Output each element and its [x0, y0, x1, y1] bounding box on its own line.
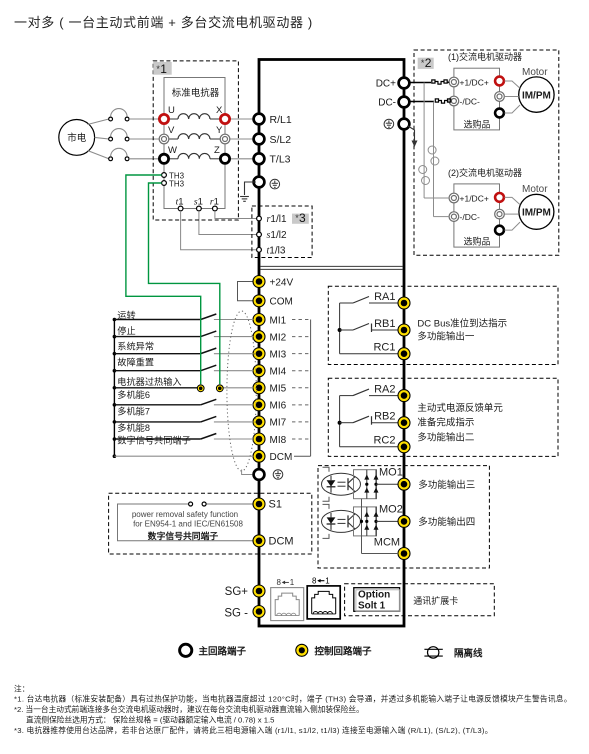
svg-text:r1: r1: [210, 197, 219, 208]
svg-text:数字信号共同端子: 数字信号共同端子: [147, 530, 219, 541]
svg-text:RA1: RA1: [374, 291, 395, 303]
svg-text:2: 2: [425, 56, 432, 70]
svg-text:RB2: RB2: [374, 411, 395, 423]
svg-text:s1: s1: [194, 197, 203, 208]
svg-text:MO1: MO1: [379, 467, 403, 479]
svg-text:MI7: MI7: [270, 418, 287, 429]
svg-text:通讯扩展卡: 通讯扩展卡: [413, 595, 458, 606]
svg-text:W: W: [168, 145, 177, 156]
svg-text:RB1: RB1: [374, 318, 395, 330]
svg-text:MI6: MI6: [270, 401, 287, 412]
svg-text:多功能输出一: 多功能输出一: [417, 330, 475, 342]
svg-text:*3. 电抗器推荐使用台达品牌，若非台达原厂配件，请将此三相: *3. 电抗器推荐使用台达品牌，若非台达原厂配件，请将此三相电源输入端 (r1/…: [14, 725, 493, 735]
svg-text:一对多 ( 一台主动式前端 + 多台交流电机驱动器 ): 一对多 ( 一台主动式前端 + 多台交流电机驱动器 ): [14, 15, 313, 30]
svg-text:(2)交流电机驱动器: (2)交流电机驱动器: [448, 167, 522, 178]
svg-text:市电: 市电: [67, 132, 87, 144]
svg-text:注：: 注：: [14, 684, 29, 694]
svg-text:1: 1: [160, 62, 167, 76]
svg-text:3: 3: [299, 211, 306, 225]
svg-text:多功能输出四: 多功能输出四: [418, 516, 475, 528]
svg-text:(1)交流电机驱动器: (1)交流电机驱动器: [448, 51, 522, 62]
svg-text:MI5: MI5: [270, 384, 287, 395]
svg-text:隔离线: 隔离线: [454, 648, 483, 660]
svg-text:多机能8: 多机能8: [117, 422, 150, 433]
svg-text:停止: 停止: [117, 325, 135, 336]
svg-text:多机能6: 多机能6: [117, 389, 150, 400]
svg-text:系统异常: 系统异常: [117, 341, 154, 352]
svg-text:主回路端子: 主回路端子: [199, 646, 247, 658]
svg-text:Z: Z: [214, 145, 220, 156]
svg-text:MI2: MI2: [270, 332, 287, 343]
svg-text:主动式电源反馈单元: 主动式电源反馈单元: [417, 402, 503, 414]
svg-text:S1: S1: [269, 499, 282, 511]
svg-text:RC1: RC1: [373, 342, 395, 354]
svg-text:COM: COM: [270, 297, 293, 308]
svg-text:1: 1: [325, 576, 330, 585]
svg-text:V: V: [168, 125, 175, 136]
svg-text:t1/l3: t1/l3: [267, 245, 286, 256]
svg-text:电抗器过热输入: 电抗器过热输入: [117, 376, 181, 387]
svg-text:TH3: TH3: [169, 180, 185, 189]
svg-text:t1: t1: [176, 197, 184, 208]
svg-text:U: U: [168, 105, 175, 116]
svg-text:标准电抗器: 标准电抗器: [172, 87, 220, 99]
svg-text:+1/DC+: +1/DC+: [460, 77, 489, 87]
svg-text:-/DC-: -/DC-: [460, 212, 480, 222]
svg-text:MI8: MI8: [270, 435, 287, 446]
svg-text:*2. 当一台主动式前端连接多台交流电机驱动器时，建议在每台: *2. 当一台主动式前端连接多台交流电机驱动器时，建议在每台交流电机驱动器直流输…: [14, 704, 364, 714]
svg-text:S/L2: S/L2: [270, 134, 292, 146]
svg-text:多机能7: 多机能7: [117, 406, 150, 417]
svg-text:MI4: MI4: [270, 367, 287, 378]
svg-text:运转: 运转: [117, 309, 135, 320]
svg-text:IM/PM: IM/PM: [522, 90, 551, 101]
svg-text:IM/PM: IM/PM: [522, 208, 551, 219]
svg-text:1: 1: [290, 578, 295, 587]
svg-text:RC2: RC2: [373, 435, 395, 447]
svg-text:s1/l2: s1/l2: [267, 230, 287, 241]
svg-text:-/DC-: -/DC-: [460, 96, 480, 106]
svg-text:DC Bus准位到达指示: DC Bus准位到达指示: [417, 317, 507, 329]
svg-text:MCM: MCM: [374, 537, 400, 549]
svg-text:控制回路端子: 控制回路端子: [315, 646, 373, 658]
svg-text:r1/l1: r1/l1: [267, 214, 287, 225]
svg-text:+1/DC+: +1/DC+: [460, 193, 489, 203]
svg-text:Y: Y: [216, 125, 223, 136]
svg-text:DCM: DCM: [269, 536, 294, 548]
svg-text:DC-: DC-: [378, 98, 396, 109]
svg-text:*1. 台达电抗器（标准安装配备）具有过热保护功能，当电抗器: *1. 台达电抗器（标准安装配备）具有过热保护功能，当电抗器温度超过 120°C…: [14, 694, 572, 704]
svg-text:准备完成指示: 准备完成指示: [417, 417, 474, 429]
svg-text:SG+: SG+: [225, 586, 249, 598]
svg-text:R/L1: R/L1: [270, 114, 292, 126]
svg-text:MO2: MO2: [379, 504, 403, 516]
svg-text:8: 8: [312, 576, 317, 585]
svg-text:MI3: MI3: [270, 349, 287, 360]
svg-text:Option: Option: [358, 590, 390, 601]
svg-text:SG -: SG -: [224, 608, 248, 620]
svg-text:多功能输出三: 多功能输出三: [418, 479, 475, 491]
svg-text:X: X: [216, 105, 223, 116]
svg-text:+24V: +24V: [270, 277, 294, 288]
svg-text:选购品: 选购品: [463, 235, 490, 246]
svg-text:DCM: DCM: [270, 452, 293, 463]
svg-text:Motor: Motor: [522, 67, 548, 78]
svg-text:for EN954-1 and IEC/EN61508: for EN954-1 and IEC/EN61508: [133, 520, 243, 529]
svg-text:多功能输出二: 多功能输出二: [417, 431, 474, 443]
svg-text:故障重置: 故障重置: [117, 357, 154, 368]
svg-text:T/L3: T/L3: [270, 154, 291, 166]
svg-text:RA2: RA2: [374, 383, 395, 395]
svg-text:选购品: 选购品: [463, 118, 490, 129]
svg-text:power removal safety function: power removal safety function: [132, 510, 238, 519]
svg-text:DC+: DC+: [376, 79, 396, 90]
svg-text:8: 8: [277, 578, 282, 587]
svg-text:MI1: MI1: [270, 315, 287, 326]
svg-text:数字信号共同端子: 数字信号共同端子: [117, 434, 191, 445]
svg-text:Motor: Motor: [522, 184, 548, 195]
svg-text:Solt 1: Solt 1: [358, 601, 386, 612]
svg-text:直流侧保险丝选用方式： 保险丝规格 = (驱动器额定输入电流: 直流侧保险丝选用方式： 保险丝规格 = (驱动器额定输入电流 / 0.78) x…: [26, 715, 274, 725]
